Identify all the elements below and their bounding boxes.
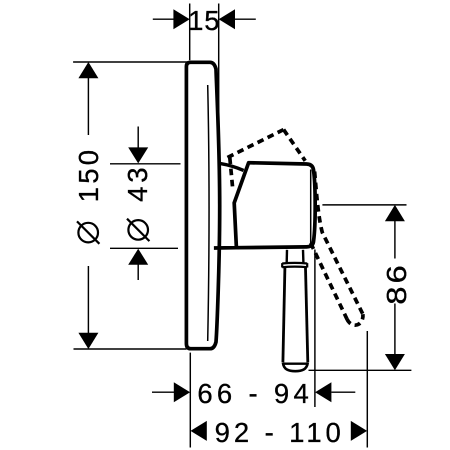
grip rounded end cap bbox=[283, 363, 308, 372]
dim D43: bottom extension line bbox=[110, 247, 178, 249]
bottom dims: row1 right extension line (body front) bbox=[314, 250, 316, 408]
plate front-face inner edge line bbox=[208, 85, 209, 341]
svg-text:86: 86 bbox=[381, 262, 412, 305]
dim D150: diameter symbol bbox=[78, 223, 98, 243]
dim 15: right arrow bbox=[219, 9, 235, 29]
lever grip bbox=[283, 268, 285, 363]
dim 92-110: right arrow bbox=[351, 421, 367, 441]
lever collar ring bbox=[282, 263, 307, 268]
dim D150: bottom extension line bbox=[74, 348, 187, 350]
dim 86: top arrow bbox=[385, 205, 405, 221]
dashed raised lever left side bbox=[311, 243, 347, 319]
dim D43: bottom arrow (pointing up) bbox=[128, 249, 148, 265]
svg-text:92 - 110: 92 - 110 bbox=[215, 417, 345, 448]
dashed raised lever right side bbox=[315, 172, 363, 315]
dashed raised grip end cap bbox=[347, 314, 363, 325]
bottom dims: row2 right extension line (raised grip end) bbox=[366, 331, 368, 448]
dim 86: bottom extension line bbox=[309, 369, 412, 371]
dim 66-94: right tail bbox=[331, 391, 355, 393]
svg-text:43: 43 bbox=[122, 164, 153, 202]
dashed raised body right corner bbox=[284, 130, 306, 161]
svg-text:66 - 94: 66 - 94 bbox=[197, 378, 313, 409]
dim D150: dimension line segments bbox=[87, 78, 89, 135]
body front-cap inner line bbox=[310, 170, 312, 244]
dim D43: diameter symbol bbox=[128, 220, 148, 240]
lever stem bbox=[286, 250, 289, 263]
dim 66-94: left arrow bbox=[174, 382, 190, 402]
dim 86: dimension line segments bbox=[394, 221, 396, 259]
dim 92-110: left arrow bbox=[191, 421, 207, 441]
dim D150: top arrow bbox=[78, 62, 98, 78]
dim 15: left tail bbox=[153, 18, 174, 20]
valve body with lever hub bbox=[214, 163, 315, 248]
dim D43: top extension line bbox=[110, 163, 181, 165]
dim 66-94: left tail bbox=[152, 391, 174, 393]
sleeve top edge (43mm escutcheon sleeve) bbox=[220, 163, 244, 170]
grip end seam bbox=[283, 363, 307, 365]
dashed raised body left edge bbox=[230, 158, 233, 188]
dim 15: left extension line bbox=[189, 4, 191, 61]
dim D150: bottom arrow bbox=[78, 333, 98, 349]
dim 86: bottom arrow bbox=[385, 354, 405, 370]
bottom dims: left extension line (wall plane) bbox=[189, 353, 191, 448]
escutcheon plate (side view, 150mm round plate) bbox=[186, 62, 219, 348]
dim 15: left arrow bbox=[173, 9, 189, 29]
dim D150: top extension line bbox=[73, 61, 189, 63]
dim 15: right extension line bbox=[218, 4, 220, 204]
svg-text:150: 150 bbox=[73, 147, 104, 203]
svg-text:15: 15 bbox=[188, 5, 220, 36]
dim 15: right tail bbox=[235, 18, 256, 20]
dim 66-94: right arrow bbox=[315, 382, 331, 402]
dim 86: top extension line bbox=[322, 204, 406, 206]
dim D43: top arrow (pointing down) bbox=[128, 147, 148, 163]
dashed lever raised position: body top edge bbox=[228, 130, 284, 158]
